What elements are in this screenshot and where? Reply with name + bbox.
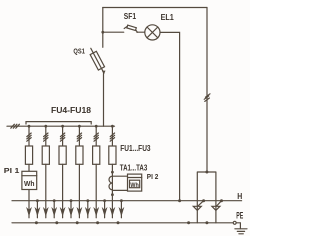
arrester FV2 electrode bbox=[217, 201, 222, 206]
wire N drop 5 bbox=[104, 201, 106, 218]
cable slashes feeder 2 bbox=[44, 133, 48, 141]
node dot N drop 5 bbox=[103, 199, 106, 202]
node dot bridge bbox=[205, 171, 208, 174]
cable slashes feeder 3 bbox=[60, 133, 64, 141]
node dot N drop 1 bbox=[36, 199, 39, 202]
arrow N drop 5 bbox=[102, 207, 108, 217]
wire arrester bridge bbox=[197, 172, 216, 223]
wire N drop 2 bbox=[53, 201, 55, 218]
node dot CT top bbox=[111, 171, 114, 174]
wire feeder 4 down bbox=[78, 164, 80, 218]
wire PE to ground bbox=[236, 223, 240, 229]
node dot PE 5 bbox=[117, 221, 120, 224]
arrow feeder 1 bbox=[26, 207, 32, 217]
cable slashes right vertical bbox=[204, 94, 210, 102]
svg-text:H: H bbox=[237, 191, 242, 201]
svg-text:TA1...TA3: TA1...TA3 bbox=[120, 164, 148, 173]
wire SF1 to lamp bbox=[137, 31, 145, 33]
arrow N drop 6 bbox=[119, 207, 125, 217]
node dot bus feeder 2 bbox=[44, 125, 47, 128]
svg-text:PI 1: PI 1 bbox=[4, 166, 20, 175]
arrow feeder 3 bbox=[60, 207, 66, 217]
wire QS1 to bus bbox=[103, 74, 105, 127]
terminal circle PE bbox=[233, 221, 236, 224]
node dot N drop 4 bbox=[86, 199, 89, 202]
disconnector QS1 blade bbox=[91, 48, 104, 73]
node dot lamp return on N bbox=[178, 199, 181, 202]
node dot bus feeder 5 bbox=[95, 125, 98, 128]
arrester FV1 electrode bbox=[198, 201, 204, 206]
node dot PE 6 bbox=[187, 221, 190, 224]
cable slashes feeder 4 bbox=[77, 133, 81, 141]
arrow feeder 4 bbox=[77, 207, 83, 217]
cable slashes feeder 5 bbox=[94, 133, 98, 141]
fuse FU group 4 bbox=[76, 146, 83, 164]
wire branch to SF1 bbox=[103, 31, 124, 33]
fuse FU group 1 bbox=[25, 146, 32, 164]
node dot arrester FV1 bbox=[202, 199, 205, 202]
arrow N drop 2 bbox=[51, 207, 57, 217]
wire left vertical bbox=[102, 8, 104, 48]
svg-text:Wh: Wh bbox=[24, 181, 35, 188]
arrow feeder 2 bbox=[43, 207, 49, 217]
node dot PE 4 bbox=[96, 221, 99, 224]
breaker SF1 contact stub bbox=[136, 30, 137, 32]
wire PE line bbox=[12, 222, 233, 224]
wire feeder 5 drop bbox=[95, 126, 97, 146]
meter PI2 window bbox=[130, 180, 140, 188]
wire right vertical bbox=[206, 8, 208, 173]
node dot PE 3 bbox=[76, 221, 79, 224]
wire N drop 1 bbox=[36, 201, 38, 218]
arrow N drop 1 bbox=[35, 207, 41, 217]
ground symbol bbox=[235, 229, 247, 234]
node dot bus feeder 6 bbox=[111, 125, 114, 128]
svg-text:FU4-FU18: FU4-FU18 bbox=[51, 106, 92, 115]
lamp EL1 circle bbox=[145, 25, 160, 40]
node dot bus feeder 4 bbox=[78, 125, 81, 128]
wire feeder 6 down bbox=[111, 164, 113, 218]
wire feeder 1 drop bbox=[28, 126, 30, 146]
meter PI1 box bbox=[22, 171, 37, 189]
wire feeder 2 down bbox=[45, 164, 47, 218]
disconnector QS1 hinge arrow bbox=[102, 71, 106, 75]
fuse FU group 3 bbox=[59, 146, 66, 164]
wire N line bbox=[12, 200, 242, 202]
CT winding bumps bbox=[109, 176, 112, 190]
arrow feeder 6 bbox=[110, 207, 116, 217]
svg-text:QS1: QS1 bbox=[73, 46, 85, 55]
cable slashes bus bbox=[11, 124, 20, 128]
arrow N drop 3 bbox=[68, 207, 74, 217]
wire feeder 2 drop bbox=[45, 126, 47, 146]
node dot bus feeder 3 bbox=[61, 125, 64, 128]
cable slashes feeder 1 bbox=[27, 133, 31, 141]
fuse FU group 5 bbox=[93, 146, 100, 164]
arrester FV1 triangle bbox=[193, 206, 201, 210]
arrow feeder 5 bbox=[93, 207, 99, 217]
wire feeder 4 drop bbox=[78, 126, 80, 146]
node dot arrester FV2 bbox=[220, 199, 223, 202]
node dot PE 1 bbox=[35, 221, 38, 224]
node dot N drop 3 bbox=[70, 199, 73, 202]
wire top horizontal bbox=[103, 7, 207, 9]
svg-text:EL1: EL1 bbox=[161, 12, 174, 22]
wire feeder 5 down bbox=[95, 164, 97, 218]
cable slashes feeder 6 bbox=[110, 133, 114, 141]
arrow N drop 4 bbox=[85, 207, 91, 217]
node dot PE 7 bbox=[205, 221, 208, 224]
svg-text:FU1...FU3: FU1...FU3 bbox=[120, 144, 151, 153]
node dot bus feeder 1 bbox=[28, 125, 31, 128]
meter PI2 box bbox=[128, 174, 142, 191]
fuse FU group 2 bbox=[42, 146, 49, 164]
node dot N drop 2 bbox=[53, 199, 56, 202]
wire meter PI1 down bbox=[28, 190, 30, 218]
wire N drop 4 bbox=[87, 201, 89, 218]
wire feeder 6 drop bbox=[111, 126, 113, 146]
disconnector QS1 fuse body bbox=[90, 51, 104, 70]
node dot N drop 6 bbox=[120, 199, 123, 202]
svg-text:PI 2: PI 2 bbox=[147, 172, 159, 181]
wire N drop 6 bbox=[120, 201, 122, 218]
fuse FU1...FU3 bbox=[109, 146, 116, 164]
wire CT secondary top bbox=[112, 175, 127, 177]
wire lamp to right drop bbox=[160, 32, 180, 200]
wire feeder 3 drop bbox=[62, 126, 64, 146]
lamp EL1 cross bbox=[147, 27, 158, 38]
svg-text:PE: PE bbox=[236, 211, 243, 221]
breaker SF1 blade stub bbox=[124, 26, 127, 28]
svg-text:Wh: Wh bbox=[130, 183, 139, 189]
bracket FU4-FU18 bbox=[26, 122, 91, 124]
wire fuse 1 to meter PI1 bbox=[28, 164, 30, 171]
wire CT secondary bottom bbox=[112, 189, 127, 191]
wire feeder 3 down bbox=[62, 164, 64, 218]
node dot PE 2 bbox=[55, 221, 58, 224]
breaker SF1 body bbox=[127, 25, 136, 30]
node dot CT bottom bbox=[111, 193, 114, 196]
arrester FV2 triangle bbox=[212, 206, 220, 210]
wire bus bbox=[7, 125, 115, 127]
wire N drop 3 bbox=[70, 201, 72, 218]
svg-text:SF1: SF1 bbox=[124, 11, 136, 21]
node junction dot left branch bbox=[101, 31, 104, 34]
